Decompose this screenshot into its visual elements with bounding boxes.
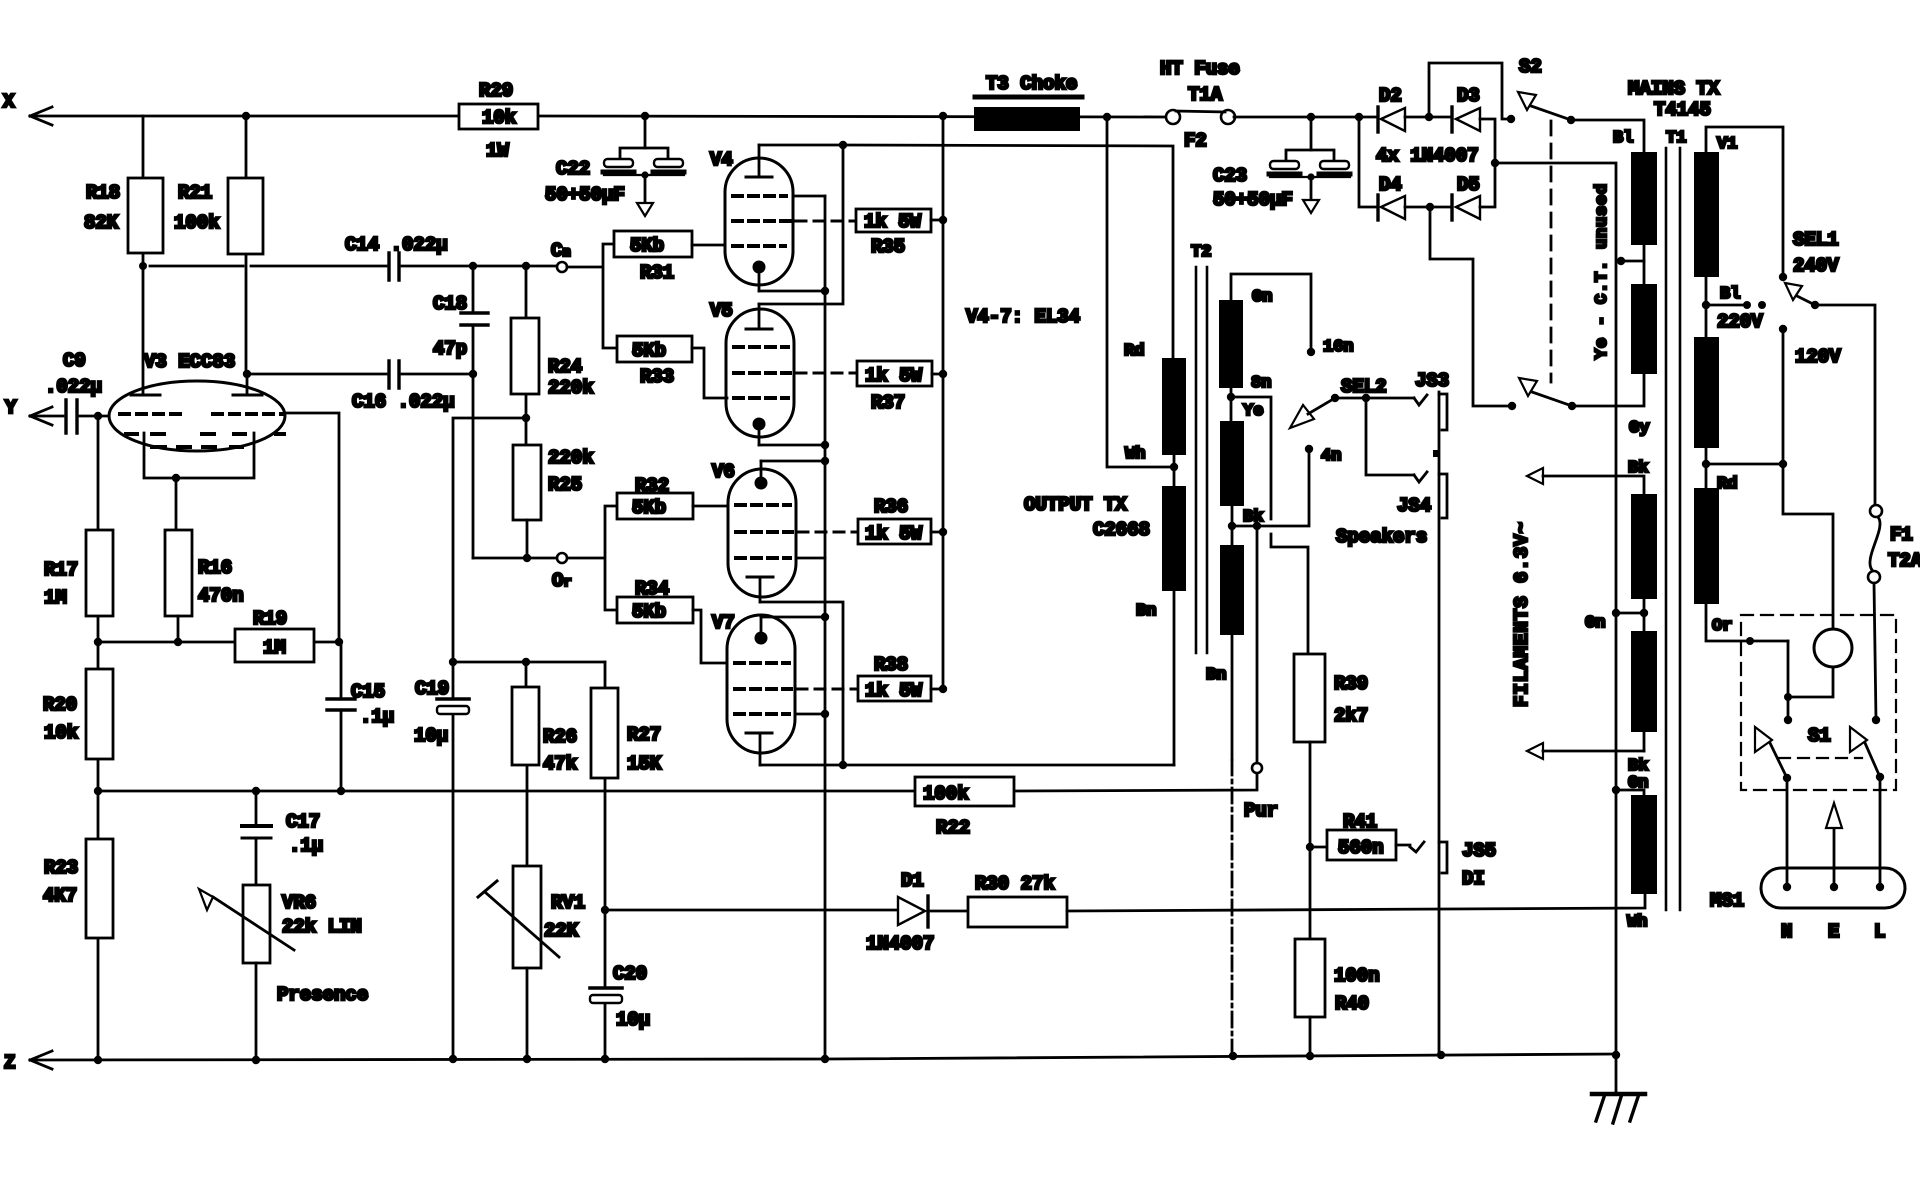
label MAINS TX T4145 — [1628, 78, 1720, 121]
svg-text:8n: 8n — [1251, 374, 1271, 393]
svg-text:Gn: Gn — [1585, 614, 1605, 633]
svg-text:V5: V5 — [710, 300, 733, 322]
svg-text:R31: R31 — [640, 262, 674, 284]
transformer T1 HT secondary Bl winding — [1571, 120, 1657, 284]
svg-text:120V: 120V — [1795, 346, 1841, 368]
svg-text:T1A: T1A — [1188, 84, 1223, 106]
svg-text:C16 .022µ: C16 .022µ — [352, 391, 455, 413]
transformer T1 filament winding B — [1631, 631, 1657, 751]
capacitor C14 .022u — [139, 234, 556, 280]
wire V3 right grid to y642 — [285, 413, 339, 642]
svg-text:X: X — [3, 91, 15, 113]
wire V5 cathode to rail — [759, 441, 829, 449]
capacitor C9 .022u — [30, 350, 109, 433]
wire S1 mechanical linkage (dashed) — [1779, 757, 1862, 759]
transformer T2 secondary winding 2 — [1220, 421, 1263, 545]
svg-text:JS5: JS5 — [1462, 840, 1496, 862]
transformer T1 filament winding A — [1631, 494, 1657, 599]
capacitor C23 50+50uF — [1213, 117, 1350, 213]
svg-text:SEL1: SEL1 — [1793, 229, 1839, 251]
connector MS1 mains inlet — [1710, 868, 1905, 943]
resistor R22 100k — [915, 777, 1014, 839]
resistor R30 27k — [931, 873, 1067, 927]
svg-text:1k 5W: 1k 5W — [865, 523, 923, 545]
wire bridge negative to ground line — [1480, 119, 1616, 1055]
label OUTPUT TX C2668 — [1024, 494, 1150, 541]
wire V6/V7 plates to output transformer — [760, 764, 1174, 767]
wire V6/V7 plate link — [760, 602, 847, 769]
wire R22 to Pur — [1014, 526, 1278, 822]
resistor R33 5K6 grid stopper — [617, 336, 727, 398]
resistor R34 5K6 grid stopper — [617, 578, 727, 663]
capacitor C16 .022u — [243, 361, 473, 413]
capacitor C19 10u — [414, 678, 469, 1059]
capacitor C15 .1u — [327, 642, 394, 791]
svg-text:R37: R37 — [871, 392, 905, 414]
resistor R20 10k — [43, 642, 113, 791]
svg-text:4x 1N4007: 4x 1N4007 — [1376, 145, 1479, 167]
svg-text:5Kb: 5Kb — [632, 601, 666, 623]
svg-text:C19: C19 — [415, 678, 449, 700]
node X (output to phase splitter input) — [3, 91, 52, 125]
wire screen rail x943 — [942, 116, 945, 689]
resistor R31 5K6 grid stopper — [614, 231, 725, 284]
wire Bk 4 ohm tap — [1232, 445, 1341, 530]
svg-text:100n: 100n — [1334, 965, 1380, 987]
svg-text:F1: F1 — [1890, 524, 1913, 546]
svg-text:T4145: T4145 — [1654, 99, 1711, 121]
node HT centre tap stub — [1617, 257, 1644, 265]
selector SEL1 240V — [1779, 229, 1875, 505]
svg-text:Wh: Wh — [1125, 445, 1145, 464]
wire unused centre tap (dashed) — [1551, 121, 1612, 382]
svg-text:C17: C17 — [286, 811, 320, 833]
svg-text:Speakers: Speakers — [1336, 526, 1427, 548]
svg-text:100k: 100k — [923, 783, 969, 805]
transformer T1 core — [1666, 129, 1686, 910]
wire Or tap to S1 — [1784, 641, 1792, 718]
svg-text:R29: R29 — [479, 80, 513, 102]
wire jack sleeve ground — [1438, 392, 1441, 1055]
transformer T2 OUTPUT TX C2668 primary Rd winding — [1124, 342, 1186, 467]
resistor R17 1M — [44, 416, 113, 642]
svg-text:R35: R35 — [871, 236, 905, 258]
svg-text:OUTPUT TX: OUTPUT TX — [1024, 494, 1127, 516]
svg-text:50+50µF: 50+50µF — [1213, 189, 1293, 211]
resistor R40 100n — [1295, 847, 1380, 1056]
svg-text:4K7: 4K7 — [43, 885, 77, 907]
wire grid bus y642 — [94, 638, 343, 646]
potentiometer VR6 22k LIN (Presence) — [199, 885, 368, 1060]
svg-text:Bl: Bl — [1613, 129, 1633, 148]
capacitor C17 .1u — [242, 791, 323, 885]
switch S1 mains (pole L) — [1808, 716, 1884, 887]
diode D2 1N4007 — [1378, 85, 1405, 132]
diode D3 1N4007 — [1405, 85, 1480, 132]
wire bias line y910 — [605, 909, 898, 912]
svg-text:R27: R27 — [627, 724, 661, 746]
svg-text:Or: Or — [1712, 617, 1732, 636]
transformer T1 primary winding 3 — [1694, 464, 1788, 645]
svg-text:R33: R33 — [640, 366, 674, 388]
transformer T2 secondary winding 1 (Gn-8n) — [1219, 274, 1354, 421]
lamp pilot — [1788, 629, 1852, 697]
resistor R41 560n — [1306, 811, 1410, 860]
svg-text:JS4: JS4 — [1397, 495, 1431, 517]
fuse F1 T2A — [1868, 505, 1920, 720]
diode D1 1N4007 — [866, 870, 934, 955]
fuse F2 HT Fuse T1A — [1160, 58, 1240, 152]
svg-text:N: N — [1781, 921, 1792, 943]
svg-text:10µ: 10µ — [616, 1009, 650, 1031]
svg-text:2k7: 2k7 — [1334, 705, 1368, 727]
resistor R23 4K7 — [43, 791, 113, 1060]
svg-text:R39: R39 — [1334, 673, 1368, 695]
diode D5 1N4007 — [1405, 174, 1480, 220]
resistor R21 100k — [174, 116, 263, 374]
svg-text:Z: Z — [4, 1052, 15, 1074]
node Y (input) — [5, 397, 52, 425]
svg-text:10k: 10k — [482, 107, 516, 129]
svg-text:R40: R40 — [1335, 993, 1369, 1015]
jack JS5 DI — [1410, 840, 1496, 890]
svg-text:5Kb: 5Kb — [630, 235, 664, 257]
wire fuse to bridge — [1234, 113, 1377, 121]
wire V4 g3 to cathode rail — [793, 195, 825, 198]
svg-text:R36: R36 — [874, 496, 908, 518]
wire V6 g3 to rail — [796, 557, 825, 560]
potentiometer RV1 22K (bias trim) — [478, 866, 585, 1059]
svg-text:.022µ: .022µ — [45, 376, 102, 398]
wire V4/V5 plate link — [759, 141, 847, 304]
node Or (open circle) — [473, 506, 617, 610]
svg-text:C14 .022µ: C14 .022µ — [345, 234, 448, 256]
wire V4 cathode to rail — [759, 287, 829, 295]
svg-text:22K: 22K — [544, 920, 579, 942]
svg-text:C15: C15 — [351, 681, 385, 703]
svg-text:V4-7: EL34: V4-7: EL34 — [966, 306, 1080, 328]
svg-text:MS1: MS1 — [1710, 890, 1744, 912]
svg-text:FILAMENTS 6.3V~: FILAMENTS 6.3V~ — [1511, 521, 1533, 707]
choke T3 — [974, 73, 1082, 131]
svg-text:82K: 82K — [84, 212, 119, 234]
svg-text:Bl: Bl — [1720, 285, 1740, 304]
svg-text:D4: D4 — [1379, 174, 1402, 196]
svg-text:R20: R20 — [43, 694, 77, 716]
svg-text:R19: R19 — [253, 608, 287, 630]
svg-text:Rd: Rd — [1717, 475, 1737, 494]
svg-text:1k 5W: 1k 5W — [865, 365, 923, 387]
svg-text:50+50µF: 50+50µF — [545, 184, 625, 206]
resistor R32 5K6 grid stopper — [617, 475, 728, 519]
svg-text:T2: T2 — [1191, 243, 1211, 262]
svg-text:JS3: JS3 — [1415, 370, 1449, 392]
resistor R27 15K — [591, 662, 662, 910]
resistor R37 1k 5W — [796, 361, 947, 414]
resistor R25 220k — [513, 445, 594, 558]
svg-text:E: E — [1828, 921, 1839, 943]
resistor R29 10k 1W — [459, 80, 538, 162]
node 120V tap wire — [1779, 325, 1841, 629]
svg-text:V6: V6 — [712, 461, 735, 483]
svg-text:D3: D3 — [1457, 85, 1480, 107]
svg-text:C23: C23 — [1213, 165, 1247, 187]
svg-text:Bn: Bn — [1136, 602, 1156, 621]
diode D4 1N4007 — [1359, 117, 1405, 220]
node Rd tap — [1702, 460, 1783, 494]
svg-text:5Kb: 5Kb — [632, 497, 666, 519]
svg-text:Y: Y — [5, 397, 17, 419]
svg-text:16n: 16n — [1323, 338, 1354, 357]
transformer T2 secondary winding 3 (Bn common) — [1206, 545, 1244, 1056]
transformer T2 primary Bn winding — [1125, 445, 1186, 765]
resistor R26 47k — [512, 662, 577, 866]
resistor R18 82K — [84, 116, 163, 266]
wire cathode rail x825 — [824, 196, 827, 1059]
svg-text:47k: 47k — [543, 753, 577, 775]
svg-text:VR6: VR6 — [282, 892, 316, 914]
resistor R35 1k 5W — [796, 209, 947, 258]
svg-text:1k 5W: 1k 5W — [865, 680, 923, 702]
svg-text:470n: 470n — [198, 585, 244, 607]
svg-text:Wh: Wh — [1627, 913, 1647, 932]
tube V7 EL34 (inverted) — [712, 612, 795, 765]
svg-text:V4: V4 — [710, 149, 733, 171]
svg-text:220V: 220V — [1717, 311, 1763, 333]
svg-text:R30 27k: R30 27k — [975, 873, 1055, 895]
transformer T2 core — [1191, 243, 1211, 653]
svg-text:C2668: C2668 — [1093, 519, 1150, 541]
tube V5 EL34 — [710, 300, 794, 445]
svg-text:240V: 240V — [1793, 255, 1839, 277]
svg-text:V3 ECC83: V3 ECC83 — [144, 351, 235, 373]
switch S2 standby (pole A) — [1518, 56, 1575, 124]
svg-text:T3 Choke: T3 Choke — [986, 73, 1077, 95]
node filament centre tap Gn grounded — [1585, 599, 1648, 633]
svg-text:R18: R18 — [86, 182, 120, 204]
resistor R19 1M — [235, 608, 314, 662]
switch S2 standby (pole B) — [1519, 378, 1576, 410]
svg-text:15K: 15K — [627, 753, 662, 775]
svg-text:R26: R26 — [543, 726, 577, 748]
resistor R39 2k7 — [1294, 654, 1368, 847]
svg-text:R23: R23 — [44, 857, 78, 879]
wire Z ground bus — [30, 1051, 1620, 1064]
node Z (ground bus arrow) — [4, 1051, 52, 1074]
svg-text:R38: R38 — [874, 654, 908, 676]
wire V7 cathode to rail — [761, 613, 829, 621]
svg-text:S1: S1 — [1808, 725, 1831, 747]
capacitor C22 50+50uF — [545, 116, 684, 216]
transformer T1 HT secondary Gy winding — [1572, 284, 1657, 438]
svg-text:C9: C9 — [63, 350, 86, 372]
wire bridge AC2 to S2 bottom — [1430, 207, 1516, 410]
capacitor C18 47p — [433, 266, 488, 558]
svg-text:Gy: Gy — [1629, 419, 1649, 438]
svg-text:D1: D1 — [901, 870, 924, 892]
svg-text:R25: R25 — [548, 474, 582, 496]
resistor R38 1k 5W — [797, 654, 947, 702]
wire C19 top bus y662 — [449, 658, 605, 666]
svg-text:220k: 220k — [548, 447, 594, 469]
tube V4 EL34 — [710, 145, 793, 291]
svg-text:DI: DI — [1462, 868, 1485, 890]
svg-text:S2: S2 — [1519, 56, 1542, 78]
svg-text:F2: F2 — [1184, 130, 1207, 152]
wire filament feed Bk (arrow) — [1527, 459, 1648, 494]
wire V6 cathode to rail — [761, 457, 829, 465]
resistor R36 1k 5W — [798, 496, 947, 545]
node Cn (open circle) — [551, 240, 617, 348]
svg-text:10k: 10k — [44, 722, 78, 744]
svg-text:.1µ: .1µ — [360, 706, 394, 728]
wire B+ to output transformer centre tap — [1107, 117, 1178, 471]
jack JS3 speaker — [1414, 370, 1449, 457]
svg-text:D2: D2 — [1379, 85, 1402, 107]
transformer T1 primary winding 2 — [1694, 305, 1719, 464]
ground symbol — [1592, 1055, 1645, 1123]
svg-text:47p: 47p — [433, 338, 467, 360]
svg-text:C22: C22 — [556, 158, 590, 180]
wire V4/V5 plates to OT primary top — [843, 145, 1173, 358]
switch S1 mains (pole N) — [1755, 716, 1792, 887]
svg-text:5Kb: 5Kb — [632, 340, 666, 362]
svg-text:V1: V1 — [1717, 135, 1737, 154]
svg-text:D5: D5 — [1457, 174, 1480, 196]
svg-text:10µ: 10µ — [414, 725, 448, 747]
svg-text:Rd: Rd — [1124, 342, 1144, 361]
resistor R24 220k — [511, 266, 594, 445]
svg-text:R17: R17 — [44, 559, 78, 581]
wire Ye 8 ohm tap — [1231, 397, 1308, 654]
svg-text:1k 5W: 1k 5W — [864, 211, 922, 233]
capacitor C20 10u — [590, 906, 650, 1059]
svg-text:R24: R24 — [548, 356, 582, 378]
svg-text:1M: 1M — [263, 637, 286, 659]
svg-text:1M: 1M — [44, 587, 67, 609]
svg-text:Ye: Ye — [1243, 402, 1263, 421]
svg-text:L: L — [1874, 921, 1885, 943]
enclosure dashed box (rear panel) — [1741, 615, 1896, 790]
node Bl 220V tap — [1702, 285, 1766, 333]
jack JS4 speaker — [1397, 472, 1447, 518]
wire bias node to C19 — [453, 418, 526, 697]
svg-text:Pur: Pur — [1244, 800, 1278, 822]
svg-text:R22: R22 — [936, 817, 970, 839]
svg-text:Ye - C.T. unused: Ye - C.T. unused — [1593, 183, 1612, 359]
wire V7 g3 to rail — [795, 710, 829, 718]
transformer T1 bias winding (Gn grounded / Wh) — [1612, 786, 1657, 932]
svg-text:MAINS TX: MAINS TX — [1628, 78, 1720, 100]
wire filament feed 2 (arrow) — [1527, 743, 1648, 793]
svg-text:220k: 220k — [548, 377, 594, 399]
transformer T1 primary V1 winding — [1694, 127, 1783, 305]
svg-text:1W: 1W — [486, 140, 509, 162]
svg-text:22k LIN: 22k LIN — [282, 916, 362, 938]
tube V6 EL34 (inverted) — [712, 461, 796, 602]
svg-text:T1: T1 — [1666, 129, 1686, 148]
wire X rail (B+ line) — [30, 112, 1167, 121]
svg-text:R21: R21 — [178, 182, 212, 204]
svg-text:C20: C20 — [613, 963, 647, 985]
svg-text:Gn: Gn — [1252, 288, 1272, 307]
svg-text:Bn: Bn — [1206, 666, 1226, 685]
wire bias line to Wh winding — [1067, 894, 1645, 911]
wire NFB bus y791 — [94, 787, 915, 795]
tube V3 ECC83 (twin triode) — [109, 266, 285, 530]
svg-text:.1µ: .1µ — [289, 835, 323, 857]
selector SEL2 impedance — [1290, 376, 1414, 475]
svg-text:1N4007: 1N4007 — [866, 933, 934, 955]
svg-text:100k: 100k — [174, 212, 220, 234]
resistor R16 470n — [165, 530, 244, 642]
svg-text:R16: R16 — [198, 557, 232, 579]
svg-text:4n: 4n — [1321, 447, 1341, 466]
svg-text:560n: 560n — [1338, 837, 1384, 859]
svg-text:T2A: T2A — [1888, 550, 1920, 572]
svg-text:HT Fuse: HT Fuse — [1160, 58, 1240, 80]
wire bridge AC1 to S2 top — [1429, 63, 1515, 123]
svg-text:RV1: RV1 — [551, 892, 585, 914]
earth arrow E — [1826, 803, 1842, 887]
svg-text:Presence: Presence — [277, 984, 368, 1006]
